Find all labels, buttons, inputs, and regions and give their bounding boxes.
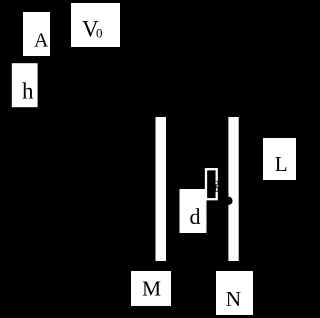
block B (small outlined rectangle between plates) [206, 169, 217, 199]
svg-text:L: L [275, 152, 288, 176]
label box M [131, 271, 171, 306]
label box h [12, 63, 38, 107]
label B (counters of letter B over right stroke) [214, 181, 218, 192]
label box V0 [71, 3, 120, 47]
svg-text:M: M [142, 277, 161, 301]
ball (black dot on plate N) [224, 197, 232, 205]
plate N (right vertical plate) [228, 117, 238, 261]
label box L [263, 138, 296, 180]
svg-text:0: 0 [96, 26, 103, 41]
plate M (left vertical plate) [156, 117, 167, 261]
svg-text:N: N [226, 287, 242, 311]
label box A [23, 12, 50, 56]
svg-text:h: h [22, 79, 34, 104]
svg-text:A: A [34, 30, 49, 52]
svg-text:d: d [190, 204, 201, 229]
label box d [180, 189, 207, 233]
label box N [216, 271, 253, 315]
